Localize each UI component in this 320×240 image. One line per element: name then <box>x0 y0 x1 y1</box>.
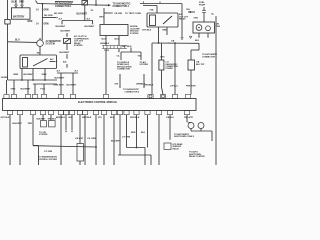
svg-text:ORG/BLK: ORG/BLK <box>144 85 154 87</box>
svg-text:BLK/WHT: BLK/WHT <box>37 119 47 121</box>
svg-text:CONNECTOR 2: CONNECTOR 2 <box>202 57 218 59</box>
svg-text:BLK/WHT: BLK/WHT <box>85 26 96 28</box>
svg-text:SHUTDOWN: SHUTDOWN <box>189 154 201 156</box>
svg-text:SYSTEM: SYSTEM <box>74 45 83 47</box>
svg-text:SYSTEM: SYSTEM <box>130 33 139 35</box>
svg-text:BLK/WHT: BLK/WHT <box>55 78 66 80</box>
svg-text:P/L GRN: P/L GRN <box>88 138 97 140</box>
svg-text:POWER: POWER <box>166 68 174 70</box>
svg-text:ORD: ORD <box>11 88 16 90</box>
svg-text:BRD: BRD <box>163 30 168 32</box>
svg-text:TRM BLK: TRM BLK <box>48 119 57 121</box>
svg-text:TO TEST CONN: TO TEST CONN <box>125 13 141 15</box>
svg-text:PNK WTR: PNK WTR <box>186 85 196 87</box>
svg-text:BLK: BLK <box>195 40 200 42</box>
svg-text:GRY BLK: GRY BLK <box>1 117 11 119</box>
svg-text:CONNECTOR 2: CONNECTOR 2 <box>125 92 141 94</box>
svg-text:ORN: ORN <box>44 10 49 12</box>
svg-text:DK GRN: DK GRN <box>54 13 63 15</box>
svg-text:PCD: PCD <box>41 88 46 90</box>
svg-text:BLK/WHT: BLK/WHT <box>77 13 88 15</box>
svg-text:ORG: ORG <box>99 17 104 19</box>
svg-text:BLK/WHT: BLK/WHT <box>24 74 35 76</box>
svg-text:BLK/WHT: BLK/WHT <box>61 31 72 33</box>
svg-text:CONTROL SYSTEM: CONTROL SYSTEM <box>38 159 57 161</box>
svg-text:L/B WHT: L/B WHT <box>75 138 84 140</box>
svg-text:BLU: BLU <box>115 38 120 40</box>
svg-text:ELECTRONIC CONTROL MODULE: ELECTRONIC CONTROL MODULE <box>78 101 117 104</box>
svg-text:SYSTEM: SYSTEM <box>140 64 149 66</box>
svg-text:BRN BLK: BRN BLK <box>56 117 66 119</box>
svg-text:TRM: TRM <box>28 123 33 125</box>
svg-text:WINDOW: WINDOW <box>173 146 182 148</box>
svg-text:C 101: C 101 <box>104 50 110 52</box>
svg-text:WHT/BLK: WHT/BLK <box>82 117 92 119</box>
svg-text:TO VEHICLE: TO VEHICLE <box>117 62 130 64</box>
svg-text:PUMP: PUMP <box>199 5 206 7</box>
svg-text:SYSTEM: SYSTEM <box>46 44 55 46</box>
svg-text:CUT OUT: CUT OUT <box>179 16 189 18</box>
svg-text:BRN: BRN <box>14 74 19 76</box>
svg-text:BLK/WHT: BLK/WHT <box>67 85 78 87</box>
svg-text:BRN: BRN <box>131 132 136 134</box>
svg-text:GRN: GRN <box>42 74 47 76</box>
svg-text:BLU: BLU <box>102 38 107 40</box>
svg-text:GRY BLK: GRY BLK <box>122 46 132 48</box>
svg-text:PNK WTR: PNK WTR <box>184 117 194 119</box>
svg-text:T/D: T/D <box>138 55 142 57</box>
svg-text:CONNECTOR 1: CONNECTOR 1 <box>55 6 72 8</box>
svg-text:CONNECTOR: CONNECTOR <box>117 69 130 71</box>
svg-text:CLUSTER: CLUSTER <box>130 28 140 30</box>
svg-text:GRN/BLK: GRN/BLK <box>100 43 110 45</box>
svg-text:BATTERY: BATTERY <box>13 16 25 19</box>
svg-text:COMPRESSOR: COMPRESSOR <box>74 38 89 40</box>
svg-text:BLK: BLK <box>12 1 17 4</box>
svg-text:TO C/B: TO C/B <box>39 132 46 134</box>
svg-text:BLU: BLU <box>15 40 20 42</box>
svg-text:DK GRN: DK GRN <box>115 13 123 15</box>
svg-text:BLK/WHT: BLK/WHT <box>111 141 121 143</box>
svg-text:CHG BLK: CHG BLK <box>142 30 152 32</box>
svg-text:SHUTDOWN CONN 2: SHUTDOWN CONN 2 <box>174 136 195 138</box>
svg-text:SYSTEM: SYSTEM <box>39 134 48 136</box>
svg-text:ORN: ORN <box>44 24 49 26</box>
svg-text:C/B BLU: C/B BLU <box>166 117 174 119</box>
svg-text:BLK/WHT: BLK/WHT <box>56 26 67 28</box>
svg-text:DK GRN: DK GRN <box>44 15 53 17</box>
svg-text:ORG: ORG <box>194 17 199 19</box>
svg-text:WHT/BLK: WHT/BLK <box>130 117 140 119</box>
svg-text:MODULE: MODULE <box>130 31 139 33</box>
svg-text:O/R: O/R <box>115 84 119 86</box>
svg-text:ORG: ORG <box>160 57 165 59</box>
svg-text:BLK TOP: BLK TOP <box>196 64 205 66</box>
svg-text:BLK: BLK <box>141 132 146 134</box>
svg-text:BLU: BLU <box>69 117 74 119</box>
svg-text:RED: RED <box>19 1 24 4</box>
svg-text:CONNECTOR 2: CONNECTOR 2 <box>113 6 130 8</box>
svg-text:FUEL: FUEL <box>199 2 205 4</box>
svg-text:CUT OUT: CUT OUT <box>74 41 84 43</box>
svg-text:L/P BLU: L/P BLU <box>170 85 178 87</box>
svg-text:BLK/WHT: BLK/WHT <box>13 123 23 125</box>
svg-text:BLK/WHT: BLK/WHT <box>60 52 71 54</box>
svg-text:CONNECTOR: CONNECTOR <box>166 66 179 68</box>
svg-text:S/D: S/D <box>37 53 41 55</box>
svg-text:GRN WTR: GRN WTR <box>54 85 65 87</box>
svg-text:BLK: BLK <box>110 117 115 119</box>
svg-text:BRD: BRD <box>28 21 33 23</box>
svg-text:BLK/WHT: BLK/WHT <box>21 88 32 90</box>
svg-text:L/T GRN: L/T GRN <box>44 151 53 153</box>
